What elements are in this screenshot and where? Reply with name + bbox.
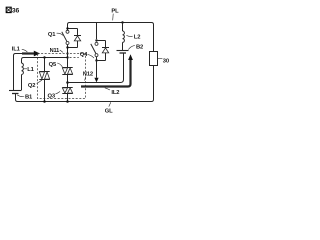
Q4 switch blade [91, 44, 96, 54]
leader 30 [158, 57, 163, 59]
leader L1 [24, 68, 27, 70]
Q4 top stub to diode [97, 40, 106, 42]
svg-text:Q3: Q3 [48, 93, 56, 99]
svg-text:IL2: IL2 [111, 90, 119, 96]
svg-text:Q2: Q2 [28, 83, 35, 89]
svg-text:B2: B2 [136, 45, 143, 51]
dashed converter box [38, 54, 86, 99]
leader L2 [126, 35, 132, 36]
figure number 図36 [6, 7, 19, 15]
leader N12 [85, 76, 86, 80]
transistor Q4 (switch with anti-parallel diode) riser from PL [96, 23, 98, 40]
leader Q4 [88, 55, 94, 59]
svg-text:PL: PL [111, 9, 119, 15]
Q4 top contact circle [95, 42, 98, 45]
leader Q3 [55, 92, 60, 95]
leader Q5 [57, 63, 62, 67]
diode of Q4 [105, 41, 107, 48]
svg-text:L2: L2 [134, 35, 140, 41]
junction dot GL-Q2 [43, 100, 46, 103]
svg-text:36: 36 [12, 8, 20, 15]
svg-text:Q5: Q5 [49, 62, 57, 68]
battery B2 long plate [117, 50, 129, 52]
leader GL [109, 102, 111, 106]
wire from B2 down and left to N2 (thin return wire) [68, 53, 124, 83]
diode of Q1 [77, 29, 79, 36]
inductor L2 [122, 23, 124, 32]
Q4 bottom stub to diode [97, 60, 106, 62]
bold current arrow IL1 [22, 52, 34, 54]
battery B2 short plate [120, 52, 127, 54]
battery B1 short plate [12, 93, 19, 95]
Q1 switch blade [62, 32, 67, 42]
svg-text:N11: N11 [50, 48, 60, 54]
battery B1 lower wire with corner to GL [16, 94, 18, 102]
leader PL [112, 14, 115, 21]
transistor Q1 (switch with anti-parallel diode), upper stub [68, 28, 78, 30]
triac Q2 [44, 58, 46, 72]
wire from L1 branch into bridge (second horizontal) [22, 58, 68, 64]
Q1 bottom stub to diode [68, 47, 78, 49]
junction dot Q2 column top [43, 56, 45, 58]
junction dot N11 upper [66, 52, 68, 54]
Q1 top contact circle [66, 30, 69, 33]
svg-text:Q4: Q4 [80, 52, 88, 58]
junction dot Q1 bottom [66, 46, 68, 48]
junction dot Q5 column top [66, 56, 68, 58]
leader Q1 [57, 33, 64, 35]
junction dot Q4 top [95, 39, 97, 41]
gate dashes right of N11 [70, 57, 79, 59]
Q4 lower wire [96, 57, 98, 61]
svg-text:B1: B1 [25, 95, 33, 101]
svg-text:IL1: IL1 [12, 47, 21, 53]
junction dot GL-Q3 [66, 100, 69, 103]
leader B2 [128, 45, 134, 49]
node junction on PL for L2 branch [121, 21, 123, 23]
svg-text:30: 30 [163, 58, 169, 64]
junction dot Q4 bottom [95, 59, 97, 61]
leader IL1 [22, 49, 28, 52]
leader N11 [60, 50, 63, 52]
bold current path IL2 with up arrowhead at B2 [81, 60, 131, 87]
leader B1 [17, 95, 24, 97]
svg-text:Q1: Q1 [48, 32, 56, 38]
wire N12 vertical with down arrowhead [96, 61, 98, 78]
junction dot node N2 (Q5-Q3 midpoint) [66, 81, 69, 84]
leader IL2 [105, 88, 110, 90]
Q4 bottom contact circle [95, 54, 98, 57]
svg-text:GL: GL [105, 108, 113, 114]
svg-text:L1: L1 [27, 67, 34, 73]
Q1 lower wire to N11 [67, 45, 69, 58]
Q1 bottom contact circle [66, 42, 69, 45]
svg-text:N12: N12 [83, 72, 93, 78]
power line PL (top rail with right drop to box 30) [68, 23, 154, 52]
leader Q2 [37, 80, 42, 84]
load box 30 [150, 52, 158, 66]
ground line GL (bottom rail with right rise to box 30) [18, 66, 154, 102]
inductor L1 [22, 63, 24, 74]
battery B1 long plate [9, 90, 22, 92]
wire IL1 (top-left horizontal into bridge) [14, 54, 33, 91]
triac Q5 [67, 58, 69, 68]
triac Q3 [62, 88, 72, 94]
junction dot Q1 top [66, 27, 68, 29]
